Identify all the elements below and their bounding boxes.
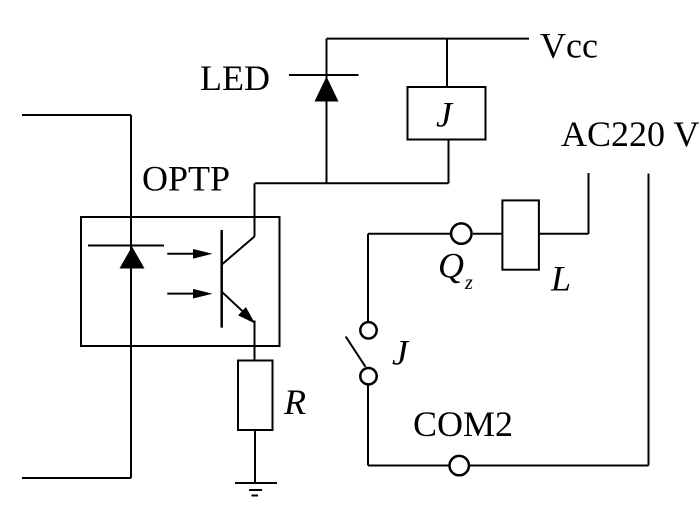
light arrow 2 xyxy=(167,289,212,299)
svg-text:COM2: COM2 xyxy=(413,404,513,444)
svg-text:AC220 V: AC220 V xyxy=(561,114,699,154)
wire bottom left segment xyxy=(368,465,449,467)
ground xyxy=(235,483,277,496)
wire resistor to ground xyxy=(254,430,256,483)
terminal Qz circle xyxy=(451,223,471,243)
relay coil J xyxy=(408,39,486,184)
load L box xyxy=(502,200,539,269)
svg-text:LED: LED xyxy=(200,58,270,98)
wire bottom-left horizontal xyxy=(22,477,131,479)
optocoupler U1 box xyxy=(81,217,280,346)
wire right vertical AC return xyxy=(648,174,650,466)
wire top-left input xyxy=(22,114,131,116)
svg-text:Vcc: Vcc xyxy=(540,26,598,66)
wire left vertical xyxy=(130,115,132,478)
wire Qz to L xyxy=(473,233,503,235)
terminal COM2 circle xyxy=(450,456,469,475)
wire AC220 feed xyxy=(539,173,589,234)
wire switch top horizontal xyxy=(368,233,451,235)
svg-text:Q: Q xyxy=(438,246,464,286)
wire bottom right segment xyxy=(470,465,649,467)
wire top Vcc rail xyxy=(327,38,530,40)
wire switch branch vertical lower xyxy=(367,386,369,466)
LED D1 xyxy=(289,39,359,184)
contact circle upper xyxy=(360,322,376,338)
svg-text:J: J xyxy=(392,333,410,373)
svg-text:L: L xyxy=(550,259,571,299)
switch blade xyxy=(346,337,366,367)
svg-text:J: J xyxy=(436,95,454,135)
light arrow 1 xyxy=(167,249,212,259)
svg-text:R: R xyxy=(283,382,306,422)
contact circle lower xyxy=(360,368,376,384)
resistor R xyxy=(238,361,273,431)
wire switch branch vertical upper xyxy=(367,234,369,321)
svg-text:OPTP: OPTP xyxy=(142,159,230,199)
phototransistor Q1 xyxy=(222,183,255,360)
node wire collector to relay xyxy=(255,182,449,184)
svg-text:z: z xyxy=(464,272,473,294)
LED D2 inside optocoupler xyxy=(88,246,164,269)
